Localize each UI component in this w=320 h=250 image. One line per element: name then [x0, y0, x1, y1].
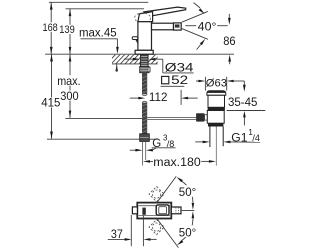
faucet body — [138, 22, 152, 51]
dimension 139 extension line (spout top) — [66, 8, 145, 10]
dimension 139 text — [58, 25, 76, 34]
faucet base plate — [135, 50, 153, 54]
spout stub (top view) — [132, 207, 137, 214]
pop-up rod to drain — [147, 116, 196, 118]
svg-text:52: 52 — [171, 73, 188, 87]
deck hatching left — [106, 54, 148, 65]
handle position diamond lower — [149, 220, 164, 235]
lever stub (top view) — [171, 207, 181, 214]
dimension 86 bottom arrow — [228, 55, 231, 62]
dimension 112 right arrow — [181, 97, 188, 100]
dimension 50deg upper text — [178, 185, 197, 197]
drain valve housing — [207, 111, 224, 124]
svg-text:max.: max. — [57, 74, 80, 88]
dimension 50deg lower text — [178, 225, 197, 237]
svg-text:50°: 50° — [179, 185, 197, 199]
threaded mounting shank — [140, 54, 148, 66]
svg-text:35-45: 35-45 — [228, 97, 257, 109]
angle arrow upper — [194, 3, 200, 8]
svg-text:86: 86 — [223, 36, 235, 48]
mounting deck surface line — [45, 53, 234, 55]
svg-text:G1: G1 — [231, 132, 247, 144]
svg-text:139: 139 — [59, 24, 75, 36]
swing line upper 50deg — [156, 176, 176, 203]
dimension 86 top arrow — [228, 14, 230, 18]
dimension 168 extension line (lever top) — [49, 1, 148, 3]
mounting nut — [140, 67, 149, 73]
spray centerline — [185, 25, 196, 27]
dimension 35-45 top arrow — [243, 81, 245, 85]
dimension 40deg text — [197, 21, 217, 31]
faucet handle housing — [138, 12, 153, 22]
drain tailpipe — [209, 127, 211, 148]
dimension max.45 leader — [81, 38, 118, 40]
mounting deck bottom line — [112, 63, 158, 65]
drain flange body — [208, 95, 225, 107]
svg-text:112: 112 — [149, 90, 168, 104]
spray angle lower line — [182, 29, 208, 40]
spout opening mark — [142, 208, 145, 215]
dimension max.180 line left — [150, 160, 153, 162]
dimension 112 extension line (spout outlet) — [180, 90, 182, 105]
dimension 415 text — [40, 97, 61, 107]
dimension max.45 lower arrow — [115, 64, 118, 71]
drain seal ring — [208, 107, 225, 110]
flexible supply hose upper part — [142, 73, 147, 95]
svg-text:50°: 50° — [179, 225, 197, 239]
svg-text:40°: 40° — [198, 22, 217, 34]
pop-up waste knob — [132, 37, 138, 40]
deck hatching right — [146, 54, 170, 65]
dimension 37 extension lines — [130, 215, 132, 246]
dimension dia34 arrows at shank — [124, 58, 134, 60]
lever centerline (top view) — [182, 210, 194, 212]
svg-text:300: 300 — [60, 89, 79, 103]
dimension 168 line — [50, 2, 52, 54]
ceramic rim reference line — [227, 110, 266, 112]
handle position diamond upper — [149, 187, 164, 202]
hose connector nut G3/8 — [140, 134, 150, 142]
dimension 35-45 text — [227, 96, 258, 107]
drain lower ring — [208, 123, 223, 126]
angle arrow lower — [197, 45, 201, 50]
dimension max.300 text — [56, 75, 81, 85]
dimension 415 line — [51, 54, 53, 139]
faucet spout arm — [152, 23, 174, 30]
dimension square52 text — [162, 76, 169, 83]
pop-up rod reference line — [65, 117, 142, 119]
dimension G3/8 underline — [152, 147, 176, 149]
drain flange cap — [207, 91, 226, 96]
dimension dia63 right arrow — [227, 80, 234, 83]
dimension 139 line — [69, 9, 71, 54]
svg-text:/4: /4 — [252, 133, 260, 143]
dimension 112 left arrow — [130, 97, 139, 99]
dimension square52 underline — [161, 85, 185, 87]
dimension G3/8 arrows at nipple — [130, 149, 137, 151]
dimension max.180 line right — [201, 160, 209, 162]
dimension max.300 line — [69, 54, 71, 118]
dimension dia63 left arrow — [196, 80, 200, 82]
handle pivot dashed circle — [135, 13, 151, 23]
swing arc lower — [177, 240, 183, 245]
drain rod knob — [196, 113, 204, 121]
dimension dia34 leader and text — [162, 59, 164, 73]
faucet body (top view) — [137, 203, 171, 219]
dimension 168 text — [42, 22, 59, 32]
svg-text:Ø63: Ø63 — [206, 78, 227, 90]
dimension 35-45 bottom arrow — [243, 111, 246, 118]
svg-text:415: 415 — [41, 96, 61, 110]
drain centerline — [215, 127, 217, 166]
dimension 37 arrows — [125, 238, 132, 241]
cartridge cap (top view) — [156, 205, 169, 215]
swing arc upper — [177, 177, 183, 182]
svg-text:max.45: max.45 — [79, 27, 117, 39]
hose-end reference line (415 bottom) — [47, 138, 158, 140]
hose break symbol — [142, 95, 147, 96]
faucet lever (side view) — [144, 7, 186, 16]
swing line lower 50deg — [156, 218, 178, 248]
dimension 37 underline — [108, 238, 125, 240]
flexible supply hose lower part — [142, 103, 147, 134]
svg-text:G: G — [152, 138, 161, 150]
svg-text:max.180: max.180 — [153, 157, 200, 169]
spray angle upper line — [182, 11, 208, 22]
svg-text:168: 168 — [43, 22, 58, 34]
dimension dia63 extension lines — [204, 77, 206, 91]
svg-text:37: 37 — [111, 227, 123, 241]
dimension G1-1/4 arrows at tailpipe — [195, 141, 203, 143]
hose nipple — [142, 141, 144, 165]
spout aerator end cap — [174, 23, 182, 30]
